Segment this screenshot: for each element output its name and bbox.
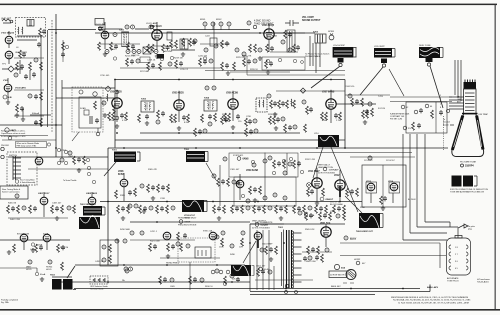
wire 49 [206, 163, 220, 206]
resistor 3 [110, 42, 113, 50]
svg-text:PHONO: PHONO [1, 145, 9, 147]
capacitor 25 [439, 110, 443, 115]
jack row circles [203, 22, 207, 26]
svg-text:V203 6AQ5: V203 6AQ5 [262, 24, 275, 27]
wire 30 [389, 69, 404, 96]
wire 6 [247, 56, 345, 75]
resistor 4 [127, 42, 130, 50]
resistor 109 [317, 246, 320, 254]
long rail [100, 201, 362, 203]
svg-text:T203: T203 [141, 99, 147, 101]
wire 87 [343, 282, 354, 284]
svg-text:SYSTEM 1: SYSTEM 1 [233, 155, 244, 157]
svg-text:WESTINGHOUSE MODELS H-21K206,: WESTINGHOUSE MODELS H-21K206, B, 21K5, G… [391, 297, 469, 299]
resistor 85 [180, 243, 183, 251]
svg-text:C408 .047: C408 .047 [52, 203, 62, 205]
wire 50 [239, 174, 241, 200]
svg-text:R405 1M: R405 1M [8, 203, 16, 205]
terminal 5 [113, 57, 116, 60]
resistor 31 [286, 100, 289, 108]
capacitor 50 [61, 245, 65, 250]
wire 37 [56, 97, 115, 99]
ground 13 [103, 113, 107, 117]
test point 36 [22, 206, 26, 210]
svg-text:SPKR: SPKR [328, 31, 334, 33]
wire 70 [273, 266, 275, 290]
svg-text:50 HOT HOUSING: 50 HOT HOUSING [318, 173, 335, 175]
terminal 21 [47, 143, 50, 146]
test point 67 [170, 278, 174, 282]
resistor 23 [201, 114, 204, 122]
audio output transformer T202 [315, 34, 326, 43]
ground 15 [77, 168, 81, 172]
terminal 35 [289, 157, 292, 160]
socket leads left of funnel [443, 116, 445, 150]
resistor 73 [61, 205, 64, 213]
capacitor 5 [114, 44, 118, 49]
sound row clutter pack [98, 25, 256, 58]
capacitor 28 [365, 109, 369, 114]
capacitor 29 [198, 129, 202, 134]
resistor 35 [321, 112, 324, 120]
terminal 17 [96, 132, 100, 136]
phono jacks [1, 147, 4, 150]
svg-text:VOL CONT: VOL CONT [302, 17, 314, 19]
ground 3 [155, 54, 159, 58]
resistor 36 [325, 112, 328, 120]
wire 53 [308, 184, 311, 187]
svg-text:C604 .047: C604 .047 [256, 266, 266, 268]
test point 21 [60, 158, 64, 162]
wire 1 [29, 21, 32, 25]
resistor 98 [293, 205, 296, 213]
resistor 52 [83, 156, 86, 164]
resistor 16 [112, 112, 115, 120]
terminal 40 [304, 213, 307, 216]
test point 60 [336, 214, 340, 218]
svg-text:YOKE SEE ALTERNATE PLUG BELOW: YOKE SEE ALTERNATE PLUG BELOW [450, 190, 484, 193]
resistor 47 [284, 124, 287, 132]
box 5 [84, 110, 89, 115]
svg-text:R217 68K: R217 68K [140, 71, 150, 73]
wire 20 [265, 32, 315, 34]
resistor 68 [356, 188, 359, 196]
svg-text:R224 27K: R224 27K [242, 56, 252, 58]
wire 7 [115, 139, 345, 141]
resistor 104 [305, 212, 308, 220]
micro value labels pack [10, 69, 416, 288]
sound IF tube V201 [101, 31, 109, 39]
svg-text:4.7K: 4.7K [122, 120, 127, 122]
resistor 27 [221, 116, 224, 124]
ground 20 [55, 216, 59, 220]
audio stage clutter pack [200, 30, 300, 59]
resistor 24 [214, 113, 217, 121]
wire 83 [302, 251, 332, 253]
terminal 49 [356, 261, 360, 265]
resistor 61 [259, 186, 262, 194]
wire 82 [325, 224, 327, 247]
top border rule [0, 4, 497, 6]
1st video IF tube V204 [112, 98, 122, 108]
T205 + detector [256, 98, 267, 112]
svg-text:PICTURE TUBE: PICTURE TUBE [460, 162, 477, 164]
capacitor 40 [277, 161, 281, 166]
test point 51 [221, 231, 225, 235]
terminal 7 [170, 56, 173, 59]
svg-text:Terminal Guide: Terminal Guide [90, 289, 104, 291]
test point 68 [200, 278, 204, 282]
resistor 113 [257, 268, 260, 276]
svg-text:T204: T204 [204, 97, 210, 100]
terminal 47 [285, 291, 288, 294]
T204 [204, 100, 217, 111]
test point 19 [254, 129, 258, 133]
resistor 83 [149, 243, 152, 251]
resistor 103 [343, 205, 346, 213]
resistor 43 [351, 98, 354, 106]
terminal 27 [87, 166, 90, 169]
video amp tube V207 [326, 99, 336, 109]
video out black coil blob [314, 133, 339, 147]
wire 76 [417, 134, 425, 227]
svg-text:H-Transformer: H-Transformer [477, 279, 490, 281]
tuner components [39, 28, 42, 36]
ground 4 [181, 52, 185, 56]
capacitor 60 [279, 206, 283, 211]
capacitor 56 [160, 206, 164, 211]
svg-text:1/2 6CG7: 1/2 6CG7 [364, 160, 373, 162]
resistor 50 [113, 104, 116, 112]
svg-text:V213: V213 [366, 181, 372, 183]
resistor 92 [231, 205, 234, 213]
resistor 84 [167, 243, 170, 251]
test point 24 [140, 184, 144, 188]
test point 45 [123, 239, 127, 243]
box with text lower-left [0, 186, 28, 199]
wire 48 [123, 173, 125, 201]
capacitor 26 [417, 123, 421, 128]
terminal 20 [1, 155, 4, 158]
capacitor 6 [131, 44, 135, 49]
terminal 30 [237, 157, 241, 161]
resistor 74 [73, 205, 76, 213]
test point 5 [227, 22, 231, 26]
test point 23 [15, 194, 19, 198]
capacitor 27 [355, 99, 359, 104]
wire 47 [13, 158, 21, 178]
wire 88 [74, 288, 420, 290]
test point 59 [298, 211, 302, 215]
resistor 10 [189, 38, 192, 46]
wire 23 [114, 80, 116, 148]
test point 40 [130, 231, 134, 235]
wire 79 [249, 224, 251, 291]
bottom rails [57, 281, 250, 283]
sync sep tube V208 [120, 179, 128, 187]
wires below [130, 221, 250, 223]
capacitor 14 [182, 115, 186, 120]
wire 25 [116, 90, 118, 122]
neck [464, 89, 477, 114]
test point 70 [230, 274, 234, 278]
resistor 76 [57, 244, 60, 252]
svg-text:PRE lamp socket 4YB2: PRE lamp socket 4YB2 [17, 145, 37, 148]
svg-text:V211 6SN7: V211 6SN7 [308, 171, 320, 173]
svg-text:R239 3.9K: R239 3.9K [268, 114, 278, 116]
long row-boundary rails [205, 70, 345, 72]
wire 52 [265, 153, 287, 201]
test point 50 [230, 244, 234, 248]
terminal 11 [425, 104, 429, 108]
svg-text:706-56-A001: 706-56-A001 [477, 281, 489, 284]
resistor 49 [94, 101, 97, 109]
wire 43 [107, 148, 109, 265]
capacitor 49 [39, 245, 43, 250]
UHF osc tube V103 [4, 84, 12, 92]
svg-text:DEFL YOKE: DEFL YOKE [419, 45, 431, 47]
wire [105, 28, 123, 30]
neck cap [464, 82, 477, 89]
capacitor 13 [161, 111, 165, 116]
svg-text:plug: plug [468, 229, 472, 231]
resistor 114 [189, 276, 192, 284]
test point 28 [263, 159, 267, 163]
svg-text:6CS6: 6CS6 [118, 174, 124, 176]
ground 16 [151, 196, 155, 200]
capacitor 30 [249, 129, 253, 134]
capacitor 1 [42, 29, 46, 34]
resistor 6 [151, 44, 154, 52]
coil 3 [258, 100, 261, 107]
resistor 28 [245, 118, 248, 126]
test point 42 [128, 204, 132, 208]
svg-text:8.2K: 8.2K [184, 122, 189, 124]
svg-text:Switch Connections: Switch Connections [2, 191, 20, 194]
left tuner column extra parts [14, 52, 44, 127]
wire 15 [104, 22, 106, 49]
terminal 10 [401, 105, 405, 109]
remote note + leader [8, 136, 12, 140]
svg-text:6.3V FILAMENTS: 6.3V FILAMENTS [255, 221, 273, 224]
svg-text:V212: V212 [334, 175, 340, 177]
test point 7 [102, 101, 106, 105]
box 10 [100, 240, 118, 266]
resistor 39 [362, 110, 365, 118]
capacitor 48 [55, 206, 59, 211]
svg-text:To Phono Tuning & Switch: To Phono Tuning & Switch [305, 53, 330, 56]
svg-text:Rear Tuning Make &: Rear Tuning Make & [2, 189, 21, 191]
resistor 66 [322, 188, 325, 196]
wire 29 [435, 102, 437, 133]
capacitor 17 [224, 117, 228, 122]
capacitor 51 [183, 233, 187, 238]
capacitor 34 [128, 190, 132, 195]
capacitor 35 [151, 185, 155, 190]
terminal 44 [179, 220, 183, 224]
vert osc tube V402 [88, 197, 96, 205]
wire 26 [178, 91, 180, 122]
capacitor 2 [37, 42, 41, 47]
svg-text:2.7K: 2.7K [336, 120, 341, 122]
resistor 37 [339, 112, 342, 120]
test point 49 [215, 235, 219, 239]
3rd video IF tube V206 [228, 99, 238, 109]
resistor 100 [315, 205, 318, 213]
wire 67 [28, 168, 108, 170]
wire 44 [8, 156, 108, 158]
svg-text:5%: 5% [408, 128, 411, 130]
svg-text:C210 .005: C210 .005 [100, 75, 110, 77]
mid cluster row E [117, 205, 120, 213]
capacitor 23 [309, 107, 313, 112]
resistor 106 [329, 212, 332, 220]
svg-text:When not in Remote Mode: When not in Remote Mode [17, 142, 40, 145]
resistor 13 [266, 44, 269, 52]
test point 56 [246, 206, 250, 210]
test point 32 [283, 196, 287, 200]
wire 13 [7, 78, 9, 100]
resistor 40 [366, 110, 369, 118]
capacitor 46 [11, 206, 15, 211]
test point 9 [208, 122, 212, 126]
resistor 45 [371, 108, 374, 116]
test point 35 [368, 156, 372, 160]
funnel [452, 114, 484, 157]
leader diagonals from video coil [313, 147, 358, 212]
resistor 115 [224, 276, 227, 284]
svg-text:C220 470: C220 470 [198, 56, 208, 58]
ground 29 [269, 257, 273, 261]
test point 66 [125, 269, 129, 273]
test point 1 [131, 25, 135, 29]
svg-text:R421 100K: R421 100K [150, 241, 161, 243]
tube 5 [254, 232, 262, 240]
test point 10 [205, 86, 209, 90]
resistor 20 [170, 114, 173, 122]
capacitor 7 [166, 45, 170, 50]
capacitor 20 [281, 101, 285, 106]
resistor 107 [343, 212, 346, 220]
wire 55 [339, 170, 341, 201]
wire 45 [0, 136, 56, 141]
resistor 42 [412, 122, 415, 130]
resistor 48 [304, 124, 307, 132]
svg-text:VHF ANT: VHF ANT [1, 18, 12, 21]
wire 85 [340, 243, 440, 268]
capacitor 69 [315, 255, 319, 260]
terminal 31 [323, 167, 327, 171]
resistor 60 [249, 186, 252, 194]
svg-text:Anode: Anode [443, 123, 450, 126]
capacitor 43 [350, 189, 354, 194]
capacitor 66 [311, 247, 315, 252]
vert output transformer blob H [231, 265, 254, 281]
wire 11 [8, 59, 10, 64]
resistor 81 [221, 238, 224, 246]
wire 8 [41, 30, 48, 127]
resistor 67 [346, 188, 349, 196]
wire 33 [140, 132, 300, 134]
resistor 8 [175, 40, 178, 48]
terminal 2 [278, 58, 281, 61]
resistor 63 [283, 160, 286, 168]
resistor 1 [29, 62, 32, 70]
resistor 46 [245, 128, 248, 136]
wire 63 [0, 239, 70, 241]
wire 9 [51, 20, 53, 133]
test point 43 [134, 204, 138, 208]
svg-text:T603: T603 [50, 275, 56, 277]
ground 5 [258, 56, 262, 60]
ground 6 [115, 124, 119, 128]
interstage transformer T201 [122, 32, 129, 46]
svg-text:150K: 150K [219, 247, 224, 249]
svg-text:V201: V201 [99, 28, 105, 30]
ground 19 [381, 206, 385, 210]
fm trap blob E [50, 262, 76, 290]
wire 77 [417, 222, 458, 227]
terminal 1 [266, 59, 269, 62]
wire 16 [213, 22, 215, 79]
test point 64 [268, 270, 272, 274]
test point 3 [211, 22, 215, 26]
svg-text:6AN8: 6AN8 [243, 158, 250, 161]
selector guide dashed box [90, 276, 108, 284]
svg-text:& Switch Assembly: & Switch Assembly [20, 181, 35, 184]
box 13 [329, 271, 347, 278]
ground 8 [177, 126, 181, 130]
terminal 32 [307, 183, 312, 188]
right border rule [495, 4, 496, 309]
resistor 55 [147, 184, 150, 192]
vert osc tube V401 [40, 197, 48, 205]
right-of-panel circles column [57, 148, 60, 151]
long rail [108, 147, 448, 149]
box 11 [178, 238, 215, 262]
terminal 48 [295, 291, 298, 294]
terminal 8 [203, 57, 206, 60]
tuner dashed box [16, 18, 46, 38]
UHF converter dashed box [72, 87, 103, 132]
vert output transformer blobs F G [79, 203, 105, 229]
capacitor 21 [276, 117, 280, 122]
svg-text:V103 6AF4: V103 6AF4 [15, 87, 26, 90]
test point 22 [68, 151, 72, 155]
svg-text:C601 80MF: C601 80MF [262, 244, 273, 246]
svg-text:SYNC GA: SYNC GA [203, 230, 213, 233]
resistor 101 [325, 205, 328, 213]
balun box inside tuner [27, 20, 34, 27]
wire 73 [160, 257, 220, 259]
test point 34 [288, 162, 292, 166]
capacitor 72 [193, 277, 197, 282]
terminal 42 [31, 243, 34, 246]
terminal 23 [64, 150, 67, 153]
VHF antenna terminals [2, 19, 13, 23]
sound IF stage wire rail [95, 32, 305, 34]
resistor 90 [213, 205, 216, 213]
wire 58 [371, 193, 393, 203]
test point 53 [186, 244, 190, 248]
T203 [141, 101, 154, 112]
svg-text:50 VOLT HOUSING: 50 VOLT HOUSING [252, 228, 270, 230]
capacitor 68 [269, 247, 273, 252]
wire 5 [285, 22, 299, 24]
svg-text:60mA: 60mA [40, 273, 46, 276]
trap caps [125, 25, 129, 29]
capacitor 15 [208, 114, 212, 119]
